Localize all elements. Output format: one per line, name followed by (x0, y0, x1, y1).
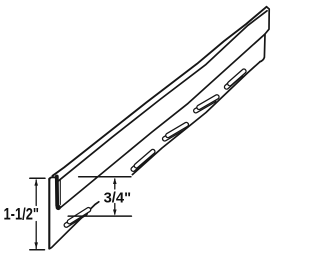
dimension 3/4 top extension line (79, 176, 131, 178)
nail slot S0 offset copy (66, 213, 85, 225)
nail slot S4 offset copy (227, 75, 241, 87)
svg-text:3/4": 3/4" (104, 189, 132, 206)
strip bottom edge B left part (49, 202, 98, 249)
left end hem band (thick) (55, 177, 59, 206)
svg-text:1-1/2": 1-1/2" (4, 206, 40, 224)
dimension 3/4 line lower segment (114, 204, 116, 215)
right end cap outline (260, 7, 269, 62)
dimension 1-1/2 line lower segment (35, 222, 37, 249)
nail slot S3 offset copy (196, 100, 214, 110)
nail slot S1 offset copy (133, 155, 149, 169)
nail slot S0 (70, 210, 89, 222)
dimension 1-1/2 bottom tick (30, 249, 45, 251)
nail slot S1 (136, 152, 152, 166)
dimension 3/4 bottom extension line (68, 215, 131, 217)
nail slot S2 offset copy (165, 128, 183, 139)
dimension 1-1/2 line upper segment (35, 180, 37, 206)
strip top outer edge T1 (53, 7, 267, 176)
hem bottom edge line H (60, 34, 265, 208)
dimension 1-1/2 top tick (30, 177, 45, 179)
left end face edge (vertical) (48, 179, 50, 249)
strip top inner fold edge T2 (59, 11, 268, 181)
strip bottom edge B right part (132, 62, 260, 175)
dimension 3/4 up arrowhead (113, 178, 117, 184)
left end top cap curve (49, 177, 57, 180)
nail slot S3 (199, 97, 217, 107)
dimension 1-1/2 up arrowhead (34, 179, 38, 185)
dimension 3/4 down arrowhead (113, 210, 117, 216)
left end hem right thin edge (59, 180, 61, 205)
nail slot S2 (168, 125, 186, 136)
nail slot S4 (230, 71, 244, 83)
left end hem cut edge blob (56, 205, 61, 210)
dimension 1-1/2 down arrowhead (34, 242, 38, 248)
dimension 3/4 line upper segment (114, 179, 116, 189)
